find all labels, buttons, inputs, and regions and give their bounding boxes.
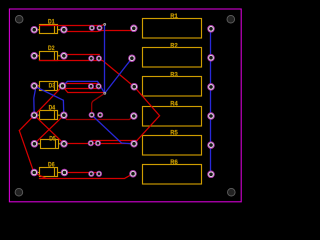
resistor R4 body [143, 107, 202, 127]
pad D3 left [31, 83, 38, 90]
pad R2 right [208, 54, 215, 61]
pad R6 right [208, 171, 215, 178]
diode D3 body [37, 82, 61, 91]
pad D2 left [31, 53, 38, 60]
pad row6 small 2 [96, 171, 101, 176]
board outline border [9, 9, 241, 202]
pad D1 right [61, 26, 68, 33]
wire red D1 right pad to R1 left pad [64, 29, 134, 32]
wire red bottom run to R6 left pad [39, 174, 133, 179]
pad R6 left [130, 170, 137, 177]
pad R2 left [129, 55, 136, 62]
wire red D3 right pad to via2 [63, 86, 105, 92]
wire red D3 right pad diagonal through D4 left pad to vertex [19, 86, 62, 130]
svg-text:R4: R4 [170, 101, 178, 108]
wire red D2 bottom to R3 left pad diagonal [39, 61, 134, 87]
via1 top [103, 23, 106, 26]
wire blue D3 right pad loop to via2 [63, 81, 105, 92]
svg-text:D3: D3 [49, 83, 56, 90]
pad R1 left [131, 25, 138, 32]
pad R3 left [131, 83, 138, 90]
wire blue D3 left pad to D4 left pad [34, 86, 36, 115]
svg-text:R6: R6 [170, 159, 178, 166]
diode D1 body [37, 25, 61, 34]
wire blue D3 left pad to D4 right pad [34, 86, 64, 115]
pad D6 left [31, 169, 38, 176]
wire red via2 to row4 small pad1 [92, 93, 105, 115]
diode D5 body [38, 140, 62, 149]
wire red D3 right pad upper to small pads row3 [63, 83, 100, 85]
pad row2 small 1 [89, 56, 94, 61]
pad row3 small 1 [88, 84, 93, 89]
resistor R1 body [143, 19, 202, 39]
svg-text:R2: R2 [170, 42, 178, 49]
wire red D2 right pad upper to small pads row2 [64, 54, 99, 56]
pad D5 right [61, 141, 68, 148]
pad R4 right [208, 113, 215, 120]
wire red D6 right pad to small pads row6 [64, 172, 99, 174]
wire blue via1 to via2 vertical trunk [104, 24, 106, 93]
resistor R6 body [143, 165, 202, 185]
svg-text:R1: R1 [170, 13, 178, 20]
svg-text:R5: R5 [170, 130, 178, 137]
mounting hole bottom-left [15, 188, 23, 196]
pad D4 right [61, 112, 68, 119]
wire blue row4 small pad1 to R5 left pad [92, 115, 134, 144]
resistor R2 body [143, 48, 202, 68]
pad row1 small 2 [97, 25, 102, 30]
pad row4 small 1 [89, 112, 94, 117]
mounting hole bottom-right [228, 188, 236, 196]
pad row5 small 1 [88, 141, 93, 146]
wire red D4 right pad to R4 left pad [64, 115, 134, 119]
pad R1 right [208, 26, 215, 33]
pad row4 small 2 [98, 112, 103, 117]
mounting hole top-right [227, 15, 235, 23]
pad row6 small 1 [89, 171, 94, 176]
pad D1 left [31, 26, 38, 33]
svg-text:R3: R3 [170, 71, 178, 78]
wire red D3 right pad lower to small pads row3 [63, 88, 100, 90]
pad D6 right [61, 169, 68, 176]
pad row2 small 2 [96, 56, 101, 61]
pad row1 small 1 [89, 25, 94, 30]
wire red D4 right pad diagonal to D5 left pad [34, 115, 63, 143]
wire red vertex steep diagonal to D6 left pad [19, 131, 46, 179]
pad D5 left [31, 141, 38, 148]
pad D4 left [31, 112, 38, 119]
resistor R3 body [143, 77, 202, 97]
pad R4 left [131, 113, 138, 120]
wire red D5 right pad to R5 left pad [64, 143, 134, 145]
wire red row5 upper line to chevron [92, 140, 138, 142]
pad R5 right [208, 142, 215, 149]
wire red R3 left pad chevron to R5 left pad [134, 87, 160, 144]
pad row3 small 2 [96, 84, 101, 89]
diode D4 body [37, 111, 61, 120]
svg-text:D2: D2 [48, 45, 55, 52]
svg-text:D4: D4 [49, 104, 56, 111]
pad D2 right [61, 53, 68, 60]
mounting hole top-left [15, 15, 23, 23]
pad R5 left [131, 140, 138, 147]
wire red D1 top to via1 [39, 24, 104, 25]
wire blue R2 left pad diagonal to via2 [105, 58, 132, 93]
wire red D4 left pad diagonal to D5 right pad [34, 115, 64, 143]
via2 middle [103, 92, 106, 95]
resistor R5 body [143, 136, 202, 156]
pad row5 small 2 [95, 141, 100, 146]
svg-text:D5: D5 [49, 136, 56, 143]
pad D3 right [59, 83, 66, 90]
diode D2 body [37, 52, 61, 61]
svg-text:D6: D6 [48, 162, 55, 169]
svg-text:D1: D1 [48, 18, 55, 25]
diode D6 body [37, 168, 61, 177]
pad R3 right [208, 84, 215, 91]
wire blue right trunk R1 right pad to R6 right pad [210, 29, 212, 175]
